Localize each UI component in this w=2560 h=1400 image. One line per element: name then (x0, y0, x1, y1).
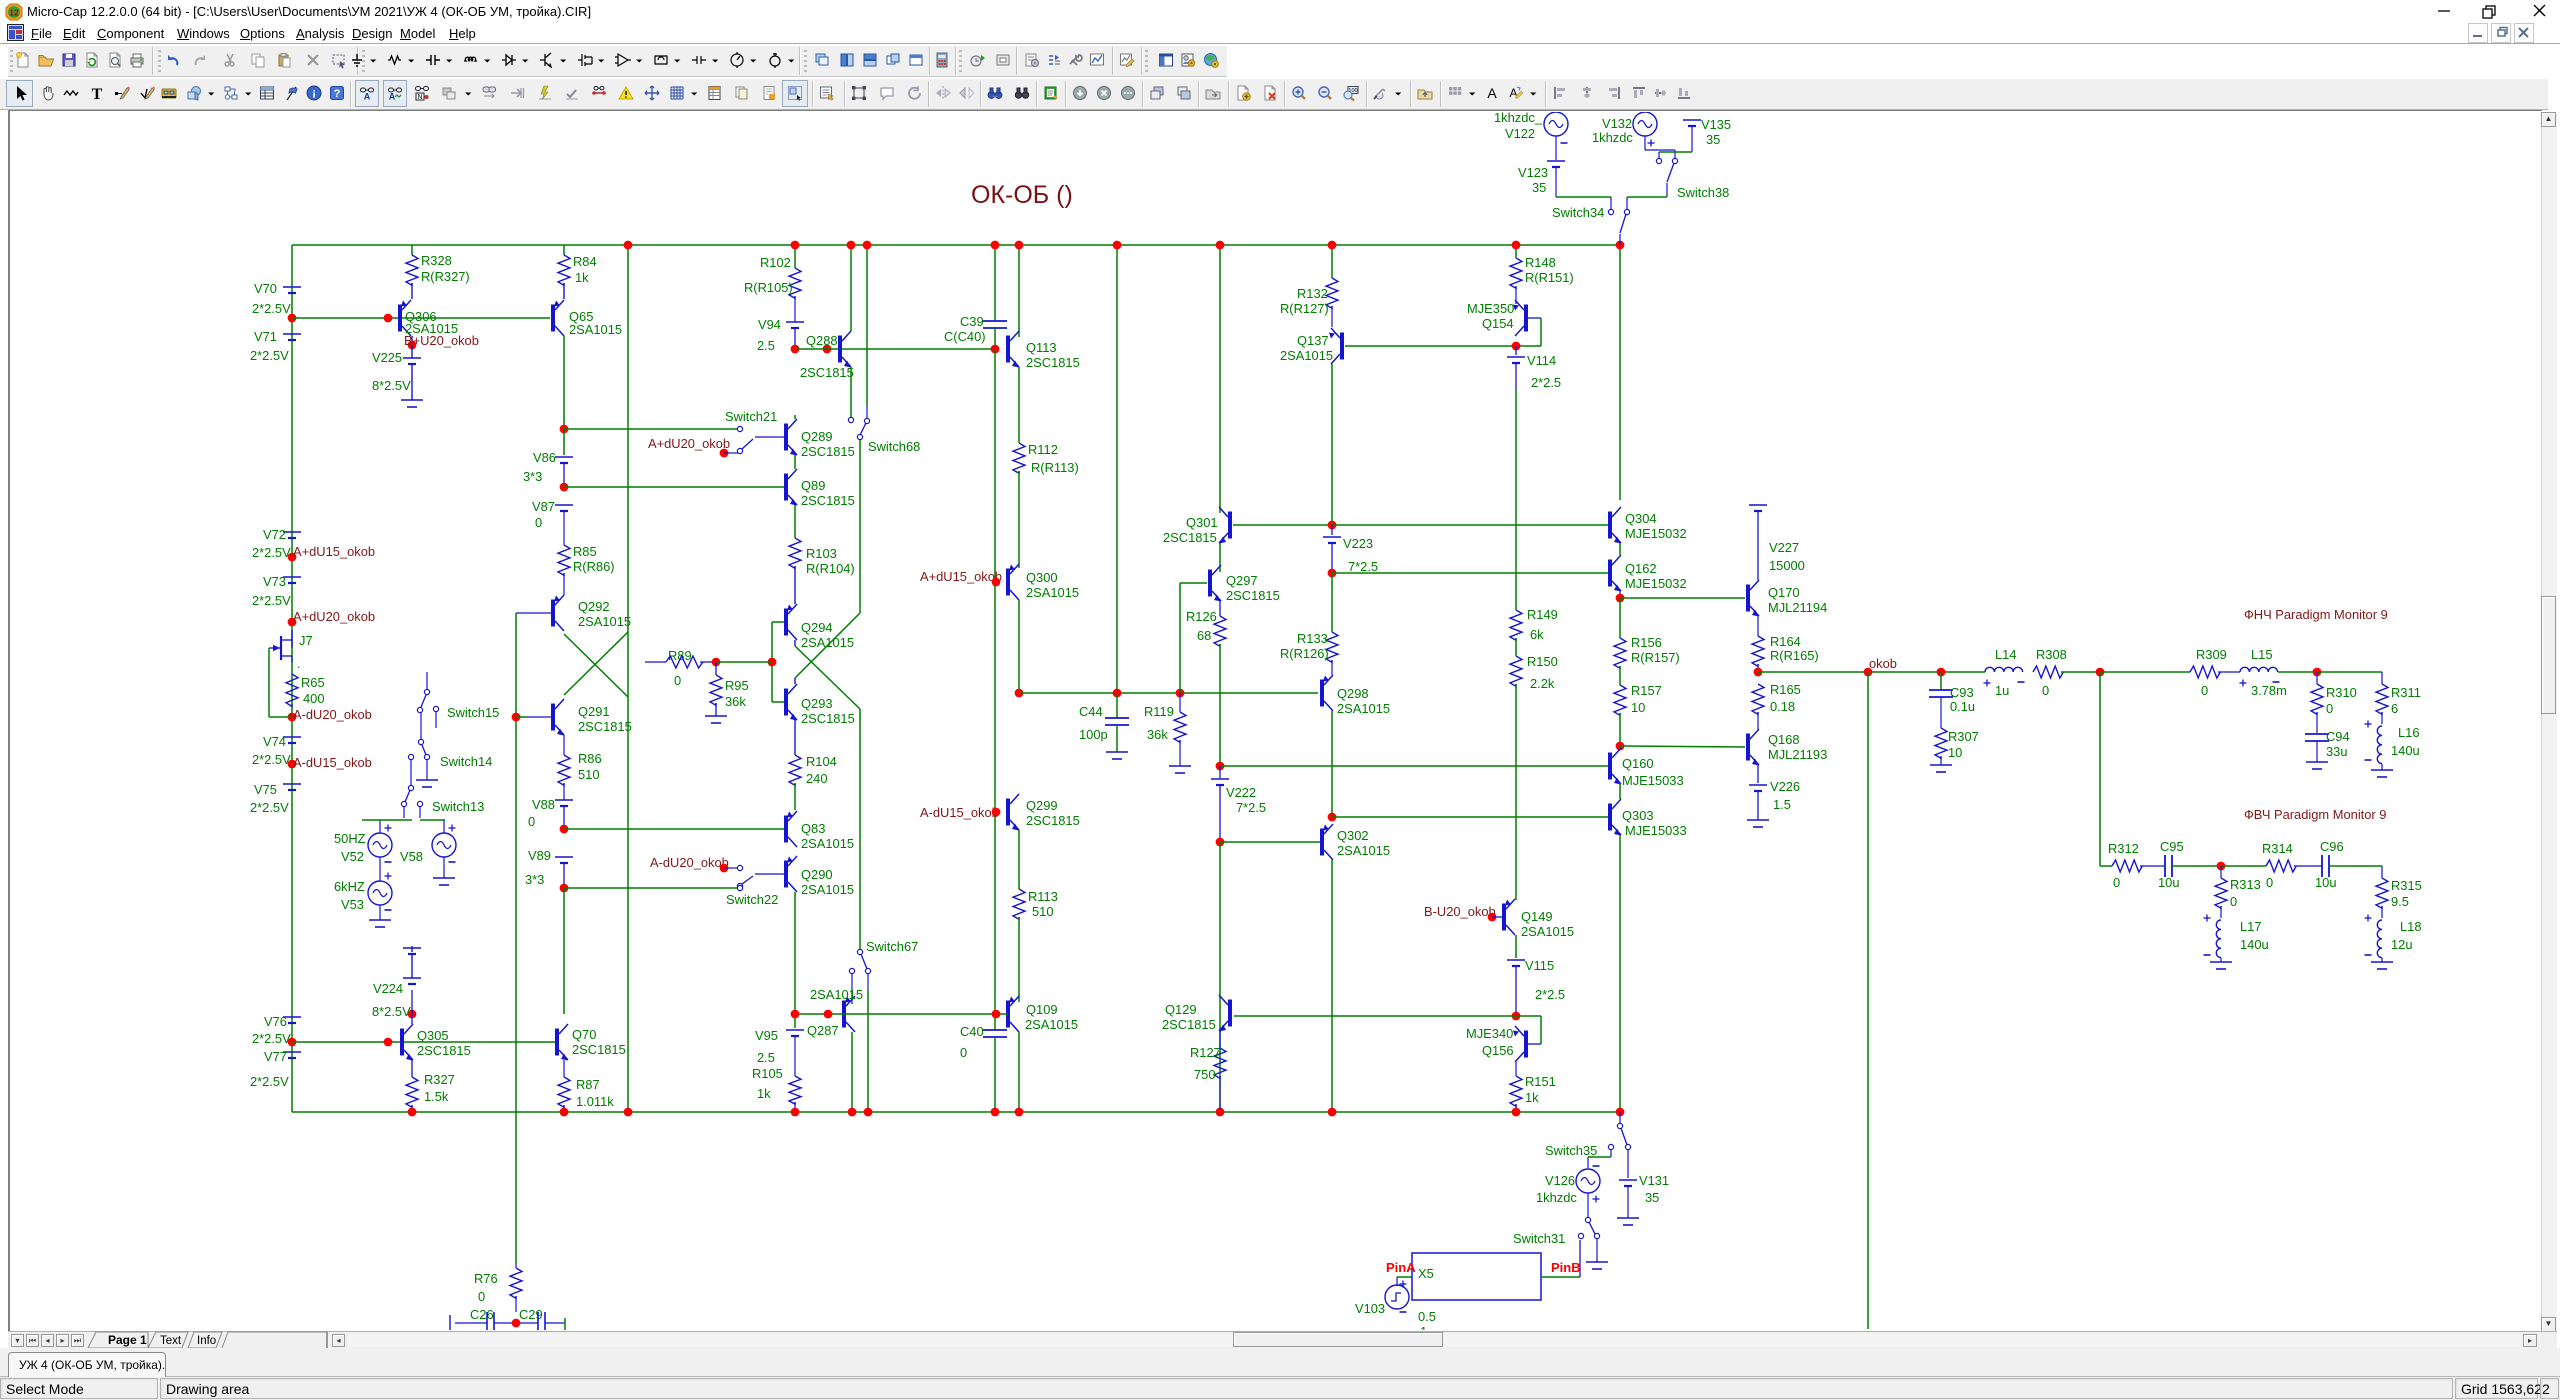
svg-text:V94: V94 (758, 317, 781, 332)
svg-text:0: 0 (478, 1289, 485, 1304)
svg-text:Q154: Q154 (1482, 316, 1514, 331)
svg-text:V226: V226 (1770, 779, 1800, 794)
svg-text:V131: V131 (1639, 1173, 1669, 1188)
svg-text:0: 0 (2113, 875, 2120, 890)
svg-text:2SA1015: 2SA1015 (1026, 585, 1079, 600)
svg-text:MJE350: MJE350 (1467, 301, 1514, 316)
svg-text:MJL21193: MJL21193 (1768, 747, 1827, 762)
svg-text:12u: 12u (2391, 937, 2413, 952)
svg-text:R157: R157 (1631, 683, 1662, 698)
svg-text:Q300: Q300 (1026, 570, 1058, 585)
svg-text:8*2.5V: 8*2.5V (372, 378, 411, 393)
svg-text:Page 1: Page 1 (108, 1333, 147, 1347)
svg-text:1k: 1k (575, 270, 589, 285)
svg-text:Q109: Q109 (1026, 1002, 1058, 1017)
svg-text:2.2k: 2.2k (1530, 676, 1555, 691)
svg-text:R119: R119 (1144, 704, 1174, 719)
svg-text:T: T (92, 86, 103, 102)
svg-text:2SC1815: 2SC1815 (1162, 1017, 1216, 1032)
svg-text:R165: R165 (1770, 682, 1801, 697)
svg-text:Switch35: Switch35 (1545, 1143, 1597, 1158)
svg-text:L18: L18 (2400, 919, 2422, 934)
svg-text:R(R104): R(R104) (806, 561, 855, 576)
svg-text:R112: R112 (1028, 442, 1058, 457)
svg-text:R(R165): R(R165) (1770, 648, 1819, 663)
svg-text:10: 10 (1631, 700, 1645, 715)
svg-text:A+dU20_okob: A+dU20_okob (648, 436, 730, 451)
svg-text:B+U20_okob: B+U20_okob (404, 333, 479, 348)
svg-text:MJE15032: MJE15032 (1625, 576, 1687, 591)
svg-text:V71: V71 (254, 329, 277, 344)
svg-text:R(R126): R(R126) (1280, 646, 1329, 661)
svg-text:R328: R328 (421, 253, 452, 268)
svg-text:R310: R310 (2326, 685, 2357, 700)
svg-text:MJE15033: MJE15033 (1625, 823, 1687, 838)
svg-text:1k: 1k (757, 1086, 771, 1101)
svg-text:2SA1015: 2SA1015 (1521, 924, 1574, 939)
svg-text:R149: R149 (1527, 607, 1558, 622)
svg-text:C(C40): C(C40) (944, 329, 986, 344)
svg-text:35: 35 (1532, 180, 1546, 195)
svg-text:35: 35 (1706, 132, 1720, 147)
svg-text:V135: V135 (1701, 117, 1731, 132)
svg-text:R313: R313 (2230, 877, 2261, 892)
svg-text:Q288: Q288 (806, 333, 838, 348)
svg-text:6k: 6k (1530, 627, 1544, 642)
svg-text:R150: R150 (1527, 654, 1558, 669)
svg-text:Q113: Q113 (1026, 340, 1057, 355)
svg-text:Switch14: Switch14 (440, 754, 492, 769)
svg-text:Q149: Q149 (1521, 909, 1553, 924)
svg-text:Q302: Q302 (1337, 828, 1369, 843)
svg-text:V70: V70 (254, 281, 277, 296)
svg-text:Q137: Q137 (1297, 333, 1329, 348)
svg-text:Switch21: Switch21 (725, 409, 777, 424)
svg-text:0: 0 (2201, 683, 2208, 698)
svg-text:Q301: Q301 (1186, 515, 1218, 530)
svg-text:2SA1015: 2SA1015 (1280, 348, 1333, 363)
svg-text:1khzdc_: 1khzdc_ (1494, 112, 1543, 125)
svg-text:2*2.5V: 2*2.5V (250, 1074, 289, 1089)
svg-text:C40: C40 (960, 1024, 984, 1039)
svg-text:1u: 1u (1995, 683, 2009, 698)
svg-text:ФВЧ Paradigm Monitor 9: ФВЧ Paradigm Monitor 9 (2244, 807, 2386, 822)
svg-text:3*3: 3*3 (525, 872, 544, 887)
svg-text:N: N (417, 94, 422, 101)
svg-text:Q289: Q289 (801, 429, 833, 444)
svg-text:R87: R87 (576, 1077, 600, 1092)
svg-text:R126: R126 (1186, 609, 1217, 624)
svg-text:R327: R327 (424, 1072, 455, 1087)
svg-text:R312: R312 (2108, 841, 2139, 856)
svg-text:V58: V58 (400, 849, 423, 864)
svg-text:140u: 140u (2240, 937, 2269, 952)
svg-text:C94: C94 (2326, 729, 2350, 744)
svg-text:33u: 33u (2326, 744, 2348, 759)
svg-text:2SA1015: 2SA1015 (801, 635, 854, 650)
svg-text:2SA1015: 2SA1015 (578, 614, 631, 629)
svg-text:Switch31: Switch31 (1513, 1231, 1565, 1246)
svg-text:R148: R148 (1525, 255, 1556, 270)
svg-text:Switch15: Switch15 (447, 705, 499, 720)
svg-text:3.78m: 3.78m (2251, 683, 2287, 698)
svg-text:Q168: Q168 (1768, 732, 1800, 747)
svg-text:2SC1815: 2SC1815 (1226, 588, 1280, 603)
svg-text:Switch67: Switch67 (866, 939, 918, 954)
svg-text:R151: R151 (1525, 1074, 1556, 1089)
svg-text:1khzdc: 1khzdc (1592, 130, 1633, 145)
svg-text:L15: L15 (2251, 647, 2273, 662)
svg-text:2SA1015: 2SA1015 (1337, 701, 1390, 716)
svg-text:V72: V72 (263, 527, 286, 542)
svg-text:2*2.5V: 2*2.5V (252, 593, 291, 608)
svg-text:0.5: 0.5 (1418, 1309, 1436, 1324)
svg-text:MJE15032: MJE15032 (1625, 526, 1687, 541)
svg-text:2SA1015: 2SA1015 (810, 987, 863, 1002)
svg-text:V73: V73 (263, 574, 286, 589)
svg-text:2SA1015: 2SA1015 (801, 836, 854, 851)
svg-text:2SC1815: 2SC1815 (801, 711, 855, 726)
svg-text:C95: C95 (2160, 839, 2184, 854)
svg-text:Q287: Q287 (807, 1023, 839, 1038)
svg-text:3*3: 3*3 (523, 469, 542, 484)
svg-text:V123: V123 (1518, 165, 1548, 180)
svg-text:Q160: Q160 (1622, 756, 1654, 771)
svg-text:V115: V115 (1525, 958, 1554, 973)
svg-text:A-dU15_okob: A-dU15_okob (293, 755, 372, 770)
svg-text:36k: 36k (1147, 727, 1168, 742)
svg-text:Q294: Q294 (801, 620, 833, 635)
svg-text:50HZ: 50HZ (334, 831, 366, 846)
svg-text:2*2.5V: 2*2.5V (252, 301, 291, 316)
svg-text:R95: R95 (725, 678, 749, 693)
svg-text:0: 0 (2042, 683, 2049, 698)
svg-text:A: A (389, 92, 396, 102)
svg-text:Q83: Q83 (801, 821, 825, 836)
svg-text:2SC1815: 2SC1815 (572, 1042, 626, 1057)
svg-text:1khzdc: 1khzdc (1536, 1190, 1577, 1205)
svg-text:0.18: 0.18 (1770, 699, 1795, 714)
svg-text:MJE340: MJE340 (1466, 1026, 1513, 1041)
svg-text:R311: R311 (2391, 685, 2421, 700)
svg-text:C96: C96 (2320, 839, 2344, 854)
svg-text:Q298: Q298 (1337, 686, 1369, 701)
svg-text:510: 510 (578, 767, 600, 782)
svg-text:36k: 36k (725, 694, 746, 709)
svg-text:C39: C39 (960, 314, 984, 329)
svg-text:1k: 1k (1525, 1090, 1539, 1105)
svg-text:0: 0 (528, 814, 535, 829)
svg-text:V103: V103 (1355, 1301, 1385, 1316)
svg-text:10: 10 (1948, 745, 1962, 760)
svg-text:12: 12 (9, 8, 19, 18)
svg-text:R(R86): R(R86) (573, 559, 615, 574)
svg-text:?: ? (334, 88, 341, 100)
svg-text:Q293: Q293 (801, 696, 833, 711)
svg-text:1.5: 1.5 (1773, 797, 1791, 812)
svg-text:2SC1815: 2SC1815 (417, 1043, 471, 1058)
svg-text:2SC1815: 2SC1815 (1163, 530, 1217, 545)
svg-text:ФНЧ Paradigm Monitor 9: ФНЧ Paradigm Monitor 9 (2244, 607, 2388, 622)
svg-text:V122: V122 (1505, 126, 1535, 141)
svg-text:Switch38: Switch38 (1677, 185, 1729, 200)
svg-text:2SA1015: 2SA1015 (1025, 1017, 1078, 1032)
svg-text:400: 400 (303, 691, 325, 706)
svg-text:0: 0 (2326, 701, 2333, 716)
svg-text:140u: 140u (2391, 743, 2420, 758)
svg-text:C93: C93 (1950, 685, 1974, 700)
svg-text:V87: V87 (532, 499, 555, 514)
svg-text:2SC1815: 2SC1815 (801, 444, 855, 459)
svg-text:R(R127): R(R127) (1280, 301, 1329, 316)
svg-text:Q129: Q129 (1165, 1002, 1197, 1017)
svg-text:R105: R105 (752, 1066, 783, 1081)
svg-text:6: 6 (2391, 701, 2398, 716)
svg-text:100p: 100p (1079, 727, 1108, 742)
svg-text:R314: R314 (2262, 841, 2293, 856)
svg-text:MJL21194: MJL21194 (1768, 600, 1827, 615)
svg-text:1.5k: 1.5k (424, 1089, 449, 1104)
svg-text:R85: R85 (573, 544, 597, 559)
svg-text:2SA1015: 2SA1015 (1337, 843, 1390, 858)
svg-text:2*2.5: 2*2.5 (1531, 375, 1561, 390)
svg-text:R315: R315 (2391, 878, 2422, 893)
svg-text:510: 510 (1032, 904, 1054, 919)
svg-text:6kHZ: 6kHZ (334, 879, 365, 894)
svg-text:2SC1815: 2SC1815 (578, 719, 632, 734)
svg-text:A+dU20_okob: A+dU20_okob (293, 609, 375, 624)
svg-text:Switch34: Switch34 (1552, 205, 1604, 220)
svg-text:0: 0 (2230, 894, 2237, 909)
svg-text:R307: R307 (1948, 729, 1979, 744)
svg-text:R309: R309 (2196, 647, 2227, 662)
svg-text:V86: V86 (533, 450, 556, 465)
svg-text:Q70: Q70 (572, 1027, 596, 1042)
svg-text:2SC1815: 2SC1815 (801, 493, 855, 508)
svg-text:2SC1815: 2SC1815 (1026, 355, 1080, 370)
svg-text:A+dU15_okob: A+dU15_okob (920, 569, 1002, 584)
svg-text:ОК-ОБ (): ОК-ОБ () (971, 181, 1073, 209)
svg-text:1: 1 (1420, 1324, 1427, 1330)
svg-text:2*2.5: 2*2.5 (1535, 987, 1565, 1002)
svg-text:2*2.5V: 2*2.5V (250, 348, 289, 363)
svg-text:V76: V76 (264, 1014, 287, 1029)
svg-text:V114: V114 (1527, 353, 1556, 368)
svg-text:R133: R133 (1297, 631, 1328, 646)
svg-text:2*2.5V: 2*2.5V (252, 752, 291, 767)
svg-text:Q305: Q305 (417, 1028, 449, 1043)
svg-text:L17: L17 (2240, 919, 2262, 934)
svg-text:9.5: 9.5 (2391, 894, 2409, 909)
svg-text:R308: R308 (2036, 647, 2067, 662)
svg-text:Q299: Q299 (1026, 798, 1058, 813)
svg-text:A: A (1487, 85, 1497, 101)
svg-text:A-dU20_okob: A-dU20_okob (293, 707, 372, 722)
svg-text:V75: V75 (254, 782, 277, 797)
svg-text:2*2.5V: 2*2.5V (252, 545, 291, 560)
svg-text:0: 0 (674, 673, 681, 688)
svg-text:35: 35 (1645, 1190, 1659, 1205)
svg-text:Switch22: Switch22 (726, 892, 778, 907)
svg-text:R102: R102 (760, 255, 791, 270)
svg-text:V52: V52 (341, 849, 364, 864)
svg-text:R(R327): R(R327) (421, 269, 470, 284)
svg-text:2SA1015: 2SA1015 (801, 882, 854, 897)
svg-text:2SC1815: 2SC1815 (800, 365, 854, 380)
svg-text:7*2.5: 7*2.5 (1236, 800, 1266, 815)
svg-text:A+dU15_okob: A+dU15_okob (293, 544, 375, 559)
svg-text:R113: R113 (1028, 889, 1058, 904)
svg-text:0: 0 (2266, 875, 2273, 890)
svg-text:68: 68 (1197, 628, 1211, 643)
svg-text:Q292: Q292 (578, 599, 610, 614)
svg-text:PinB: PinB (1551, 1260, 1581, 1275)
svg-text:V88: V88 (532, 797, 555, 812)
svg-text:10u: 10u (2315, 875, 2337, 890)
svg-text:A-dU20_okob: A-dU20_okob (650, 855, 729, 870)
svg-text:R164: R164 (1770, 634, 1801, 649)
svg-text:R104: R104 (806, 754, 837, 769)
svg-text:R(R151): R(R151) (1525, 270, 1574, 285)
svg-text:V225: V225 (372, 350, 402, 365)
svg-text:0.1u: 0.1u (1950, 699, 1975, 714)
svg-text:Text: Text (160, 1335, 182, 1347)
svg-text:R(R105): R(R105) (744, 280, 793, 295)
svg-text:.: . (297, 656, 301, 671)
svg-text:L16: L16 (2398, 725, 2420, 740)
svg-text:V126: V126 (1545, 1173, 1575, 1188)
svg-text:C29: C29 (519, 1307, 543, 1322)
svg-text:2*2.5V: 2*2.5V (252, 1031, 291, 1046)
svg-text:Switch68: Switch68 (868, 439, 920, 454)
svg-text:2SA1015: 2SA1015 (569, 322, 622, 337)
svg-text:V53: V53 (341, 897, 364, 912)
svg-text:V132: V132 (1602, 116, 1632, 131)
svg-text:V222: V222 (1226, 785, 1256, 800)
svg-text:Q297: Q297 (1226, 573, 1258, 588)
svg-text:240: 240 (806, 771, 828, 786)
svg-text:B-U20_okob: B-U20_okob (1424, 904, 1496, 919)
svg-text:0: 0 (535, 515, 542, 530)
svg-text:V77: V77 (264, 1049, 287, 1064)
svg-text:Q170: Q170 (1768, 585, 1800, 600)
svg-text:15000: 15000 (1769, 558, 1805, 573)
svg-text:R65: R65 (301, 675, 325, 690)
svg-text:V227: V227 (1769, 540, 1799, 555)
svg-text:Q162: Q162 (1625, 561, 1657, 576)
svg-text:V223: V223 (1343, 536, 1373, 551)
svg-text:Q89: Q89 (801, 478, 825, 493)
svg-text:J7: J7 (299, 633, 313, 648)
svg-text:V74: V74 (263, 734, 286, 749)
svg-text:okob: okob (1869, 656, 1897, 671)
svg-text:10u: 10u (2158, 875, 2180, 890)
svg-text:R(R113): R(R113) (1031, 460, 1079, 475)
svg-text:Info: Info (197, 1335, 216, 1347)
svg-text:R103: R103 (806, 546, 837, 561)
svg-text:PinA: PinA (1386, 1260, 1416, 1275)
svg-text:C26: C26 (470, 1307, 494, 1322)
svg-text:2SC1815: 2SC1815 (1026, 813, 1080, 828)
svg-text:V89: V89 (528, 848, 551, 863)
svg-text:750: 750 (1194, 1067, 1216, 1082)
svg-text:V95: V95 (755, 1028, 778, 1043)
svg-text:MJE15033: MJE15033 (1622, 773, 1684, 788)
svg-text:Switch13: Switch13 (432, 799, 484, 814)
svg-text:Q304: Q304 (1625, 511, 1657, 526)
svg-text:Q291: Q291 (578, 704, 610, 719)
svg-text:R86: R86 (578, 751, 602, 766)
svg-text:C44: C44 (1079, 704, 1103, 719)
svg-text:1.011k: 1.011k (576, 1094, 614, 1109)
svg-text:8*2.5V: 8*2.5V (372, 1004, 411, 1019)
svg-text:2.5: 2.5 (757, 1050, 775, 1065)
svg-text:Q303: Q303 (1622, 808, 1654, 823)
svg-text:2*2.5V: 2*2.5V (250, 800, 289, 815)
svg-text:2.5: 2.5 (757, 338, 775, 353)
svg-text:A-dU15_okob: A-dU15_okob (920, 805, 999, 820)
svg-text:L14: L14 (1995, 647, 2017, 662)
svg-text:R132: R132 (1297, 286, 1328, 301)
svg-text:X5: X5 (1418, 1266, 1434, 1281)
svg-text:R76: R76 (474, 1271, 498, 1286)
svg-text:R84: R84 (573, 254, 597, 269)
svg-text:R(R157): R(R157) (1631, 650, 1680, 665)
svg-text:R127: R127 (1190, 1045, 1221, 1060)
svg-text:A: A (364, 92, 371, 102)
svg-text:Q290: Q290 (801, 867, 833, 882)
svg-text:i: i (312, 89, 315, 101)
svg-text:R156: R156 (1631, 635, 1662, 650)
svg-text:7*2.5: 7*2.5 (1348, 559, 1378, 574)
svg-text:0: 0 (960, 1045, 967, 1060)
svg-text:V224: V224 (373, 981, 403, 996)
svg-text:Q156: Q156 (1482, 1043, 1514, 1058)
